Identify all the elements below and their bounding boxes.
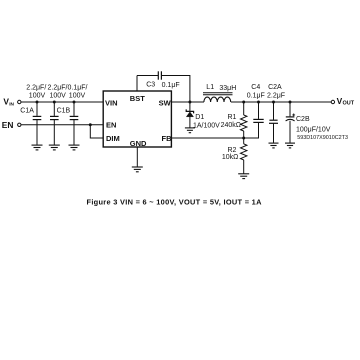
svg-text:0.1μF/: 0.1μF/ (68, 85, 88, 92)
svg-text:EN: EN (2, 120, 14, 130)
wire FB rail (171, 137, 243, 139)
wire SW rail right of L1 (231, 101, 331, 103)
capacitor C1A (20, 85, 46, 145)
ground R2 (238, 174, 249, 179)
wire BST horizontal (137, 75, 158, 77)
ground C2B (285, 143, 295, 148)
node FB junction (242, 137, 245, 140)
inductor L1 (203, 84, 236, 102)
svg-text:593D107X9010C2T3: 593D107X9010C2T3 (297, 135, 348, 141)
wire GND pin down (136, 147, 138, 167)
node EN junction (89, 123, 92, 126)
svg-text:C4: C4 (251, 84, 260, 91)
ground C1B (49, 145, 60, 150)
svg-text:33μH: 33μH (219, 85, 236, 92)
node C4 top (257, 101, 260, 104)
svg-text:240kΩ: 240kΩ (221, 122, 241, 129)
svg-text:IN: IN (9, 101, 14, 106)
svg-text:C2B: C2B (296, 116, 310, 123)
svg-text:100V: 100V (50, 92, 67, 99)
ground C1A (32, 145, 43, 150)
ground input cap (69, 145, 80, 150)
ground IC (132, 167, 143, 172)
capacitor C1B (48, 85, 71, 145)
svg-text:C1B: C1B (57, 107, 71, 114)
capacitor C2B (polarized) (286, 102, 348, 143)
svg-text:SW: SW (159, 98, 172, 107)
svg-text:GND: GND (130, 139, 147, 148)
svg-text:R1: R1 (228, 114, 237, 121)
wire C3 to SW node (162, 76, 190, 103)
svg-text:VIN: VIN (105, 98, 118, 107)
ground C2A (269, 143, 279, 148)
node SW junction (188, 101, 191, 104)
capacitor 0.1uF input (68, 85, 88, 145)
svg-text:100V: 100V (69, 92, 86, 99)
svg-text:Figure 3 VIN = 6 ~ 100V, VOUT: Figure 3 VIN = 6 ~ 100V, VOUT = 5V, IOUT… (87, 198, 263, 207)
svg-text:10kΩ: 10kΩ (222, 154, 239, 161)
svg-text:C2A: C2A (268, 84, 282, 91)
svg-text:DIM: DIM (106, 134, 120, 143)
resistor R2 (222, 138, 247, 174)
svg-text:100V: 100V (29, 92, 46, 99)
wire VIN rail (21, 101, 103, 103)
svg-text:OUT: OUT (343, 101, 355, 107)
capacitor C3 (146, 71, 179, 89)
capacitor C2A (267, 84, 285, 143)
wire BST up (136, 76, 138, 92)
svg-text:R2: R2 (228, 147, 237, 154)
wire EN to DIM (90, 125, 103, 138)
svg-text:C1A: C1A (20, 107, 34, 114)
op-amp U1 (regulator IC box) (103, 91, 171, 147)
terminal VOUT (331, 96, 355, 106)
svg-text:C3: C3 (146, 82, 155, 89)
wire EN rail (21, 124, 103, 126)
svg-text:0.1μF: 0.1μF (247, 93, 265, 100)
svg-text:BST: BST (130, 94, 145, 103)
diode D1 (186, 102, 220, 129)
svg-text:2.2μF/: 2.2μF/ (26, 85, 46, 92)
node C2A top (272, 101, 275, 104)
wire FB node to C4 bottom (244, 123, 259, 139)
capacitor C4 (247, 84, 265, 122)
wire SW rail left (171, 101, 204, 103)
node R1 top (242, 101, 245, 104)
svg-text:D1: D1 (195, 114, 204, 121)
terminal VIN (3, 97, 21, 107)
svg-text:2.2μF: 2.2μF (267, 93, 285, 100)
terminal EN (2, 120, 21, 130)
svg-text:1A/100V: 1A/100V (193, 122, 220, 129)
svg-text:L1: L1 (206, 84, 214, 91)
svg-text:FB: FB (162, 134, 173, 143)
node C2B top (289, 101, 292, 104)
svg-text:2.2μF/: 2.2μF/ (48, 85, 68, 92)
svg-text:EN: EN (106, 121, 116, 130)
svg-text:100μF/10V: 100μF/10V (296, 126, 331, 133)
svg-text:0.1μF: 0.1μF (162, 82, 180, 89)
resistor R1 (221, 102, 247, 138)
ground D1 (185, 128, 195, 133)
